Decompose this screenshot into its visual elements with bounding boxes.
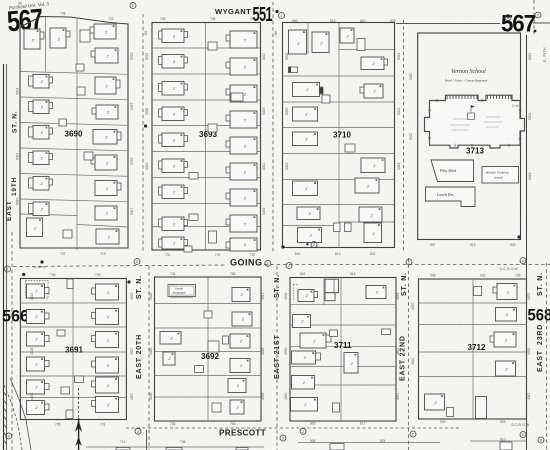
left border hatch marks (4, 392, 7, 444)
house block3691 E col r3 (92, 332, 119, 348)
shed block3710 s1b (345, 223, 352, 232)
marker Going/21st (265, 260, 271, 266)
East 23rd street west line (526, 35, 528, 450)
flats building block3711 dashed (325, 279, 339, 301)
house block3711 center (344, 353, 358, 374)
bottom partial block row (below Prescott) (86, 441, 527, 447)
house block3691 W col r3 (27, 332, 50, 346)
block 3693 lot lines (152, 23, 261, 251)
marker Wygant/21st (279, 13, 285, 19)
house block3693 E col r4 (226, 111, 257, 128)
shed block3693 c5 (209, 231, 217, 243)
shed block3693 c3 (208, 124, 217, 132)
Manual Training building (482, 167, 519, 184)
house block3711 NE (366, 286, 386, 299)
block 3711 outline (290, 278, 396, 422)
house block3690 N row 2 (50, 28, 70, 48)
house block3692 E col r1 (232, 288, 250, 302)
block 3691 outline (20, 279, 126, 420)
house block3691 W col r2 (27, 310, 50, 324)
house block3710 E col r3 (360, 84, 383, 98)
block 3710 outline (283, 23, 395, 248)
block 3690 outline (20, 17, 128, 249)
East 20th centerline dashes (top) (142, 14, 144, 251)
block 3690 lot lines (20, 17, 128, 250)
shed block3693 c2 (231, 93, 243, 101)
house block3692 E col r4 (230, 359, 250, 373)
house block3710 W col r5 (293, 132, 318, 146)
20th street west line below Prescott (146, 430, 148, 450)
house block3693 W col r3 (159, 82, 188, 96)
house block3690 E col r2 (91, 48, 118, 63)
Wygant north line east extension (396, 23, 500, 25)
Prescott ROW dashed line (126, 427, 460, 429)
house block3691 W col r5 (27, 380, 50, 394)
house block3693 E col r8 (226, 215, 257, 232)
tall narrow building block3712 (476, 397, 487, 419)
shed block3691 c2 (57, 330, 65, 336)
shed block3692 c5 (223, 336, 229, 344)
marker Going/19th (5, 266, 11, 272)
house block3711 NW (298, 290, 318, 302)
block 3712 lot lines (419, 279, 527, 419)
house block3690 NW corner (24, 29, 44, 49)
house block3710 E col r2 (361, 57, 388, 70)
marker Prescott/23rd west (520, 432, 526, 438)
survey dot (306, 243, 308, 245)
house block3710 NE small (340, 28, 354, 43)
block 3713 outline (418, 33, 521, 240)
East 22nd centerline dashes (top) (403, 20, 405, 251)
block 3712 outline (419, 279, 527, 419)
marker Prescott/23rd east (538, 437, 544, 443)
house block3692 W col r4 (163, 352, 175, 365)
house block3690 W col r4 (29, 126, 53, 140)
house block3693 W col r5 (159, 133, 188, 147)
house block3712 E r1 (493, 284, 517, 300)
house block3710 SE corner (364, 223, 382, 243)
shed block3712 top (474, 287, 482, 296)
house block3710 E col r6 (355, 178, 379, 193)
shed with dark edge block3710 (289, 67, 298, 73)
house block3690 E col r9 (96, 229, 119, 244)
house block3691 E col r6 (92, 397, 119, 413)
shed block3691 c1 (75, 376, 84, 383)
shed block3692 c1 (208, 341, 219, 352)
house block3691 W col r1 (27, 284, 50, 298)
marker Wygant/20th (130, 3, 136, 9)
shed block3692 c3 (212, 403, 221, 412)
house block3690 E col r8 (95, 206, 117, 220)
house block3693 E col r5 (226, 137, 257, 154)
house block3693 E col r2 (226, 58, 257, 75)
marker Prescott/19th (6, 433, 12, 439)
shed block3711 c1 (330, 330, 338, 337)
marker Going/22nd (406, 259, 412, 265)
house block3690 E col r6 (91, 155, 117, 170)
block 3691 lot lines (20, 279, 126, 420)
house block3691 W col r6 (27, 401, 50, 415)
house block3693 W col r8 (159, 217, 188, 231)
marker Prescott/21st (300, 428, 306, 434)
block 3692 lot lines (155, 277, 262, 421)
survey dot (127, 280, 130, 283)
house block3690 E col r5 (93, 130, 121, 145)
Play Shed building (431, 160, 474, 182)
East 23rd east-side dashes (bottom) (546, 263, 548, 450)
shed block3692 c4 (204, 311, 212, 318)
survey dot (144, 124, 147, 127)
survey dot (517, 235, 520, 238)
marker Prescott/21st east (280, 435, 286, 441)
house block3691 W col r4 (27, 357, 50, 371)
house block3690 W col r6 (29, 177, 53, 191)
house block3693 W col r9 (159, 237, 188, 249)
house block3692 E col r2 (232, 312, 252, 326)
marker Going/23rd (520, 258, 526, 264)
block 3710 lot lines (283, 23, 395, 248)
house block3710 E col r7 (359, 207, 382, 222)
shed block3690 c2 (76, 64, 84, 71)
marker Prescott/22nd (410, 431, 416, 437)
house block3690 SW big (27, 218, 43, 237)
block 3693 outline (152, 23, 261, 251)
shed block3711 s (333, 403, 340, 412)
house block3691 E col r5 (92, 377, 119, 393)
shed block3691 bottom (66, 410, 73, 419)
survey dot (40, 260, 43, 263)
shed block3692 c2 (195, 366, 204, 373)
house block3690 W col r3 (29, 100, 53, 114)
house block3710 W col r4 (293, 107, 318, 121)
East 23rd centerline dashes top (533, 0, 535, 34)
Lunch Room building (426, 187, 476, 207)
house block3693 W col r2 (159, 55, 188, 69)
shed block3693 c4 (189, 173, 198, 180)
house block3691 E col r2 (92, 309, 119, 325)
Going centerline dashes (13, 265, 227, 267)
house block3711 W r3 (300, 333, 331, 348)
block 3692 outline (155, 277, 262, 421)
shed block3710 top (357, 39, 365, 51)
East 21st centerline dashes (bottom) (276, 266, 278, 450)
house block3693 W col r6 (159, 159, 188, 173)
shed block3691 c3 (61, 387, 70, 394)
diagonal road lines bottom-left (10, 378, 31, 450)
marker Going/20th (134, 259, 140, 265)
house block3711 W r4 (292, 351, 321, 364)
house block3710 W col r6 (293, 181, 318, 196)
house block3692 E col r3 (230, 334, 250, 348)
Jewish Synagogue dashed site (168, 285, 196, 298)
house block3692 W col r3 (160, 332, 181, 345)
map neatline left double border (3, 64, 5, 450)
shed block3693 c1 (208, 42, 217, 50)
house block3690 E col r1 (90, 24, 116, 39)
shed block3710 s2 (322, 95, 330, 103)
shed block3690 c3 (77, 87, 85, 95)
house block3692 E col r5 (228, 379, 246, 393)
East 19th centerline dashes (bottom) (11, 232, 13, 450)
house block3710 W col r7 (297, 207, 320, 220)
shed block3691 top (67, 279, 73, 289)
house block3712 E r3 (490, 332, 516, 347)
block 3711 lot lines (290, 278, 396, 422)
house block3710 E col r5 (361, 158, 385, 173)
house block3690 E col r4 (92, 105, 118, 119)
house block3712 E r4 (496, 361, 516, 376)
survey dot (534, 30, 537, 33)
house block3710 NW corner (289, 30, 307, 54)
marker Prescott/20th (135, 428, 141, 434)
marker Wygant/23rd (505, 15, 511, 21)
shed block3710 s1 (334, 223, 341, 232)
house block3692 SE corner (230, 400, 244, 414)
Vernon School main building (425, 95, 525, 148)
shed block3690 c4 (84, 152, 93, 160)
house block3710 N r2 (312, 32, 329, 53)
survey dot (275, 10, 278, 13)
house block3690 W col r7 (29, 202, 50, 216)
house block3710 W col r3 (293, 83, 324, 97)
house block3691 W col r1 with dashed porch ring (26, 281, 49, 299)
house block3711 W r5 (292, 376, 315, 390)
house block3693 E col r9 (226, 238, 257, 251)
small twin boxes at E edge block3711 (382, 329, 391, 335)
house block3693 E col r6 (226, 163, 257, 180)
marker NE corner (535, 12, 541, 18)
house block3691 E col r1 (92, 284, 119, 300)
house block3693 E col r7 (226, 189, 257, 206)
house block3690 W col r2 (29, 75, 53, 89)
house block3693 W col r7 (159, 185, 188, 199)
marker mid (311, 242, 317, 248)
house block3693 E col r1 (226, 31, 257, 48)
marker Going/21st east (286, 263, 292, 269)
shed block3690 c6 (59, 119, 67, 126)
East 20th centerline dashes (bottom) (148, 266, 150, 450)
shed block3710 c mid (345, 144, 355, 152)
survey dot (22, 273, 25, 276)
house block3710 SW (298, 228, 322, 243)
East 22nd centerline dashes (bottom) (408, 258, 410, 450)
survey dot (281, 245, 284, 248)
shed block3690 center top (80, 30, 90, 42)
house block3693 E col r3 (226, 85, 257, 102)
shed block3690 c5 (63, 230, 72, 238)
house block3690 E col r7 (95, 181, 121, 196)
house block3712 SW (425, 394, 445, 410)
survey arrow crossing Prescott (75, 388, 82, 450)
East 21st centerline dashes (top) (272, 2, 274, 252)
shed block3712 s1 (447, 408, 454, 417)
house block3712 E r2 (496, 308, 517, 322)
house block3693 W col r1 (159, 29, 188, 43)
shed block3693 c7 (189, 214, 198, 221)
house block3690 E col r3 (95, 77, 120, 94)
house block3711 W r2 (293, 315, 311, 328)
house block3691 E col r4 (92, 357, 119, 373)
house block3711 SW (291, 398, 318, 412)
house block3690 W col r5 (29, 151, 53, 165)
house block3693 W col r4 (159, 107, 188, 121)
shed block3693 c6 (184, 246, 192, 252)
